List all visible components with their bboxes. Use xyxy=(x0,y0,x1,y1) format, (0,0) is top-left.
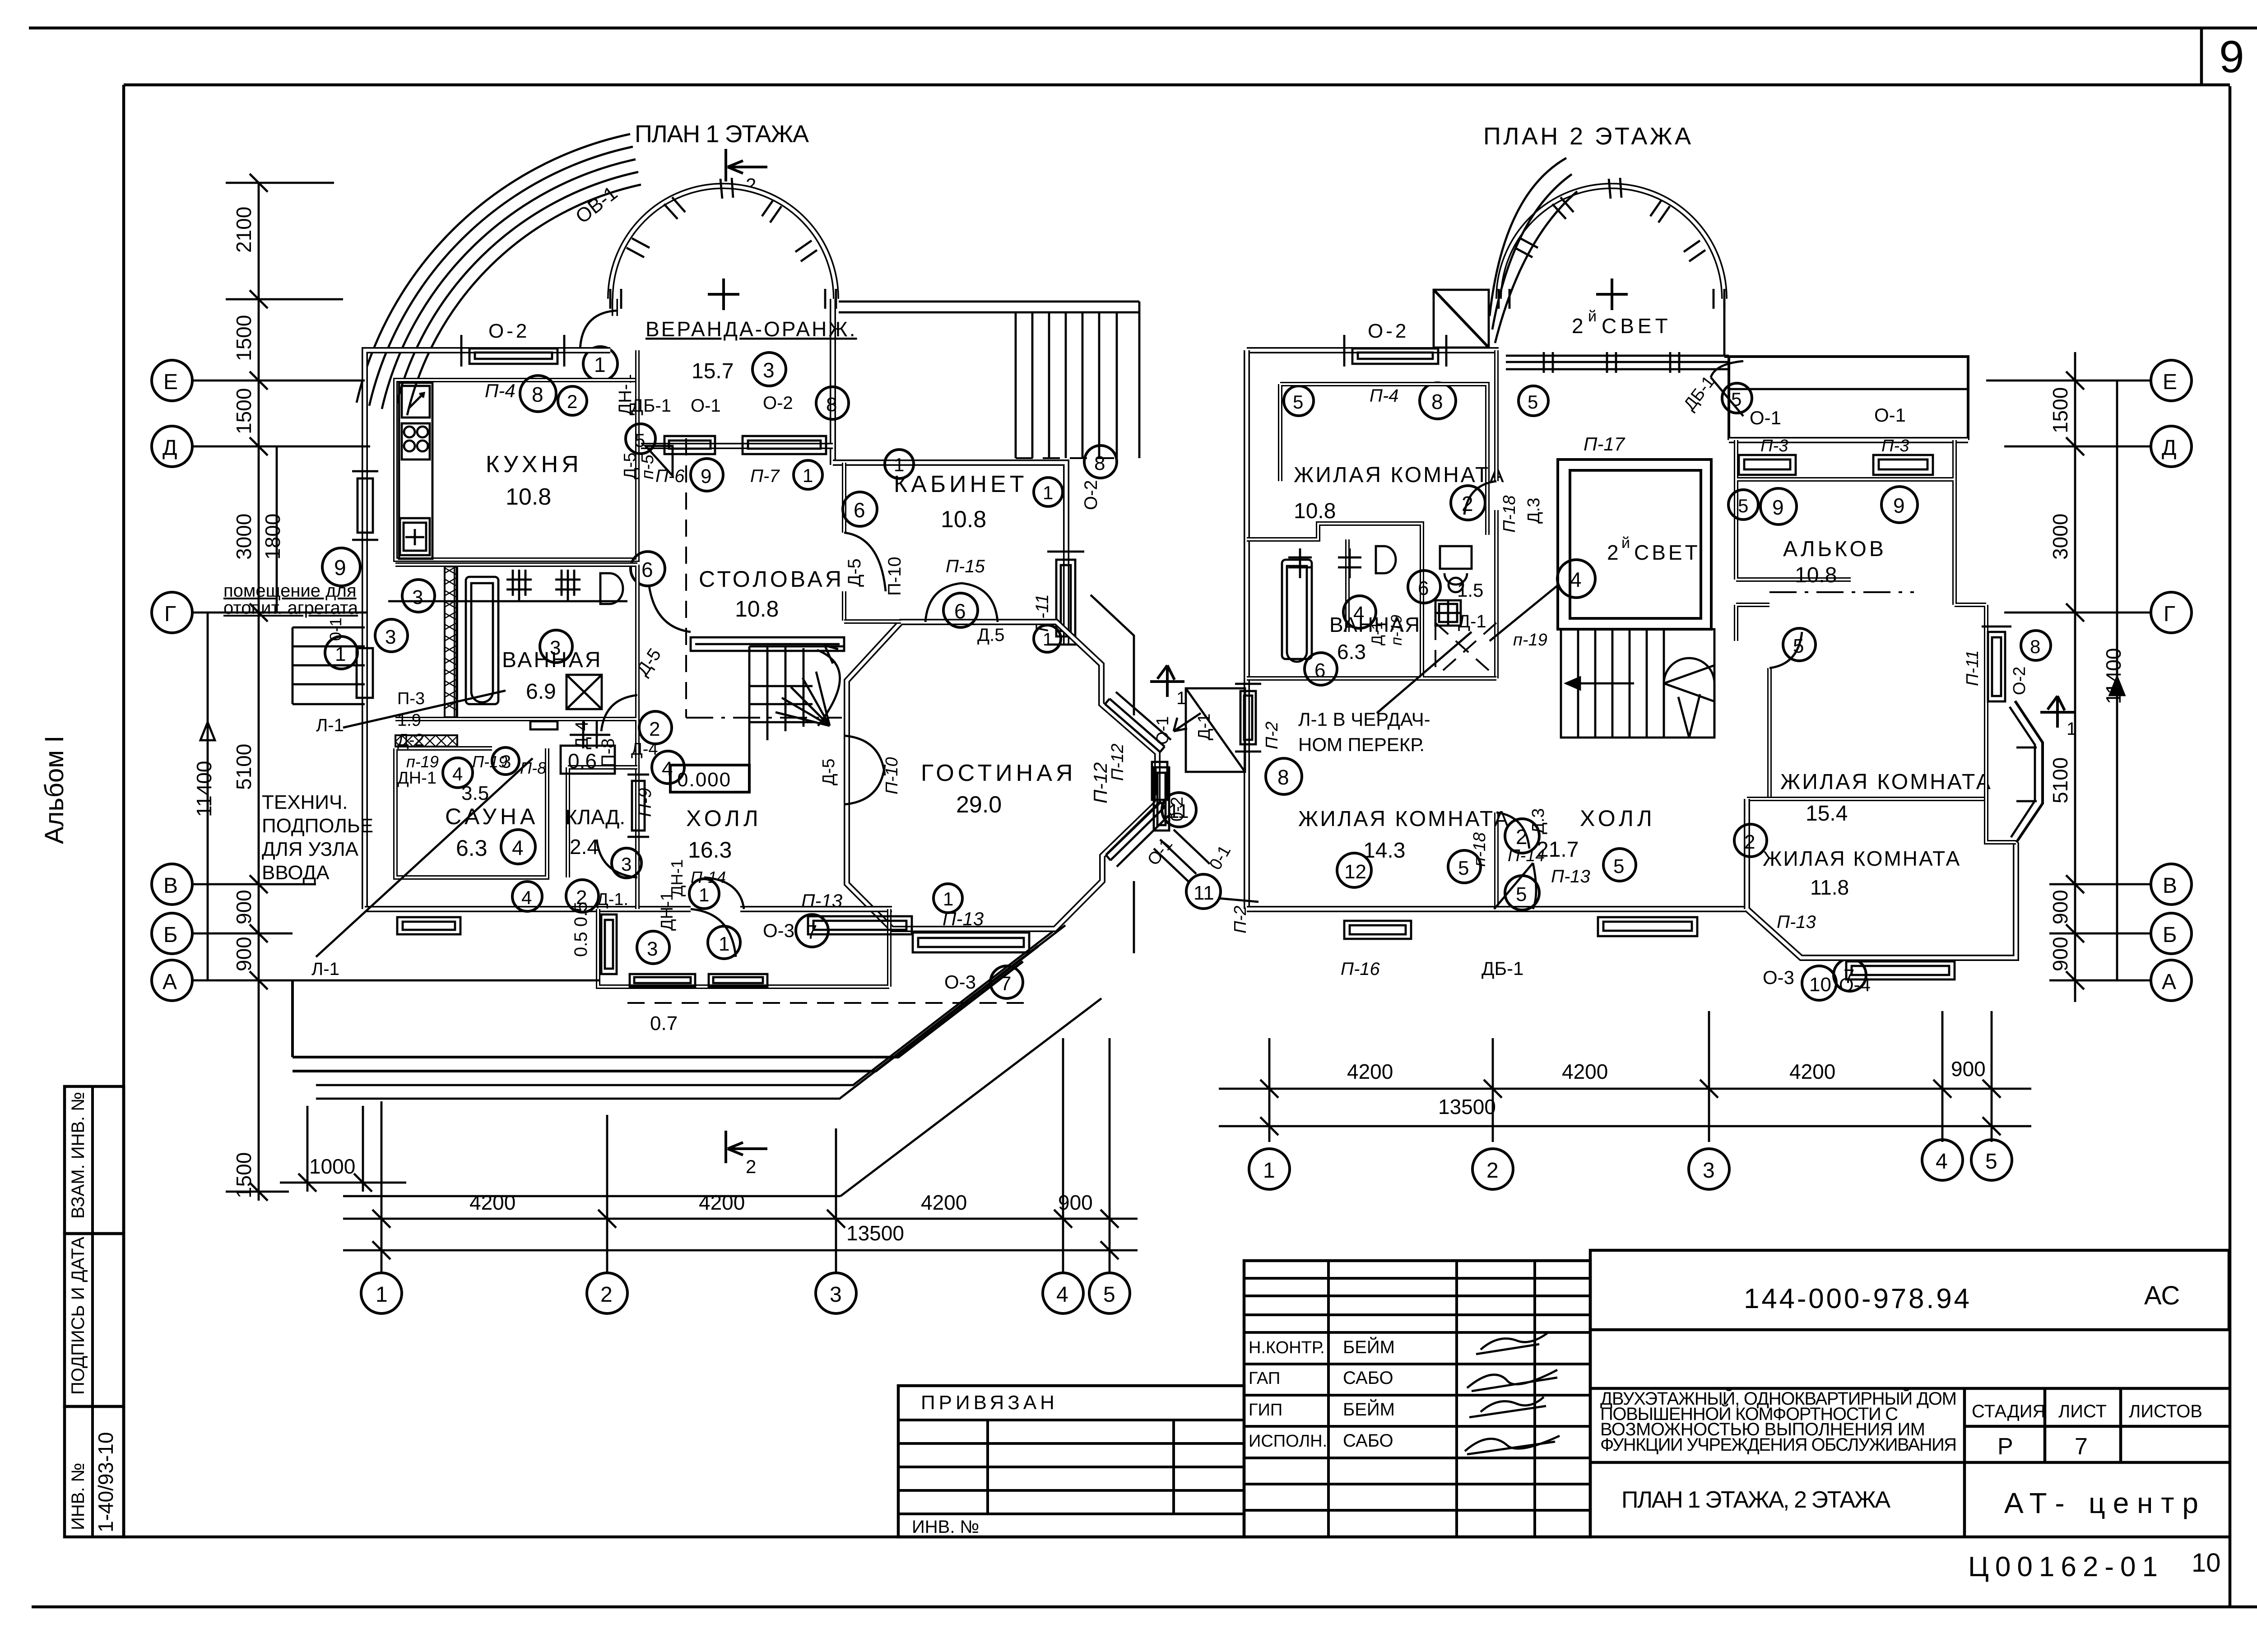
north wall east part (kabinet top) xyxy=(833,463,1066,645)
svg-text:0-2: 0-2 xyxy=(1168,797,1187,821)
svg-text:1: 1 xyxy=(894,454,904,475)
bath fixtures xyxy=(466,570,623,709)
PLAN2 axes and dims xyxy=(1219,352,2192,1189)
svg-text:П-3: П-3 xyxy=(397,689,425,708)
svg-text:4200: 4200 xyxy=(921,1191,967,1214)
svg-text:П-18: П-18 xyxy=(1500,496,1519,533)
svg-text:СТАДИЯ: СТАДИЯ xyxy=(1972,1401,2045,1421)
svg-text:14.3: 14.3 xyxy=(1363,839,1405,863)
svg-text:2: 2 xyxy=(746,1156,756,1177)
svg-text:Ц00162-01: Ц00162-01 xyxy=(1968,1551,2158,1582)
svg-text:11.8: 11.8 xyxy=(1810,876,1849,899)
svg-text:2: 2 xyxy=(1744,831,1755,853)
svg-text:О-4: О-4 xyxy=(1839,974,1871,995)
svg-text:В: В xyxy=(163,874,178,898)
page number 9 box xyxy=(2200,28,2203,86)
svg-text:6.9: 6.9 xyxy=(526,680,556,704)
svg-text:1800: 1800 xyxy=(261,514,284,560)
divider 15.4/11.8 xyxy=(1747,797,1986,801)
svg-text:Б: Б xyxy=(2163,923,2177,947)
south wall plan2 xyxy=(1247,906,1747,912)
door P-15 top of gostinaya xyxy=(925,583,998,622)
door DN-1 to porch xyxy=(691,909,736,957)
svg-text:0.5 0.5: 0.5 0.5 xyxy=(571,902,591,957)
svg-text:НОМ ПЕРЕКР.: НОМ ПЕРЕКР. xyxy=(1298,734,1425,755)
arch xyxy=(1499,186,1724,299)
kitchen counters xyxy=(399,383,432,559)
dashed closet P-19 xyxy=(1435,623,1496,677)
svg-text:900: 900 xyxy=(232,937,255,971)
svg-text:5: 5 xyxy=(1458,857,1469,879)
axis horizontal lines xyxy=(192,381,600,980)
svg-text:1: 1 xyxy=(335,643,346,665)
svg-text:15.4: 15.4 xyxy=(1806,802,1848,826)
svg-text:ЖИЛАЯ КОМНАТА: ЖИЛАЯ КОМНАТА xyxy=(1294,463,1506,487)
svg-text:П-12: П-12 xyxy=(1108,744,1127,781)
svg-text:П-13: П-13 xyxy=(801,890,842,911)
svg-text:ЛИСТОВ: ЛИСТОВ xyxy=(2129,1401,2202,1421)
0.000 level box xyxy=(670,765,749,792)
svg-text:ПЛАН 2 ЭТАЖА: ПЛАН 2 ЭТАЖА xyxy=(1483,123,1691,150)
bathroom block walls xyxy=(395,565,637,909)
svg-text:6: 6 xyxy=(1418,577,1429,599)
svg-text:2.4: 2.4 xyxy=(570,835,599,858)
svg-text:ГИП: ГИП xyxy=(1249,1401,1282,1420)
stair plan2 xyxy=(1561,629,1714,738)
svg-text:900: 900 xyxy=(1058,1191,1093,1214)
klad xyxy=(568,767,637,877)
room zhilaya 10.8 xyxy=(1280,384,1487,535)
svg-text:ВЗАМ. ИНВ. №: ВЗАМ. ИНВ. № xyxy=(68,1092,88,1219)
right big cells xyxy=(1590,1250,2229,1330)
svg-text:Д-2: Д-2 xyxy=(397,731,424,750)
svg-text:П-9: П-9 xyxy=(635,788,655,817)
svg-text:1500: 1500 xyxy=(232,388,255,434)
svg-text:О-2: О-2 xyxy=(488,320,529,342)
south outer wall xyxy=(365,906,892,912)
SE bay room 11.8 xyxy=(1747,799,2016,958)
svg-text:11400: 11400 xyxy=(2102,648,2125,704)
window P-2 left wall xyxy=(1235,684,1261,752)
svg-text:О-2: О-2 xyxy=(2010,667,2029,695)
svg-text:5: 5 xyxy=(1613,855,1624,877)
svg-text:1000: 1000 xyxy=(309,1155,355,1178)
svg-text:1500: 1500 xyxy=(232,1152,255,1198)
svg-text:13500: 13500 xyxy=(1438,1095,1496,1118)
svg-text:8: 8 xyxy=(1431,390,1443,413)
svg-text:Д.5: Д.5 xyxy=(977,625,1004,645)
svg-text:Д-5: Д-5 xyxy=(621,452,640,479)
svg-text:О-1: О-1 xyxy=(1874,404,1906,426)
svg-text:О-3: О-3 xyxy=(763,920,794,941)
svg-text:П-15: П-15 xyxy=(946,557,985,576)
svg-text:29.0: 29.0 xyxy=(956,792,1002,818)
svg-text:4: 4 xyxy=(1936,1150,1948,1174)
svg-text:Д-5: Д-5 xyxy=(845,558,864,587)
porch xyxy=(598,909,889,987)
svg-text:ЖИЛАЯ КОМНАТА: ЖИЛАЯ КОМНАТА xyxy=(1780,770,1992,794)
svg-text:П-4: П-4 xyxy=(485,380,515,401)
svg-text:1: 1 xyxy=(2067,719,2076,739)
svg-text:2: 2 xyxy=(1572,314,1584,338)
svg-text:7: 7 xyxy=(2075,1434,2088,1460)
svg-text:2: 2 xyxy=(567,391,577,412)
window P-16 xyxy=(1344,921,1411,939)
svg-text:5: 5 xyxy=(1985,1150,1997,1174)
door DB-1 south xyxy=(1494,863,1536,909)
svg-text:О-1: О-1 xyxy=(1750,407,1781,428)
svg-text:1.5: 1.5 xyxy=(1457,580,1483,601)
veranda arch xyxy=(610,186,836,299)
door P-8 xyxy=(601,695,637,731)
stolovaya/kabinet divider x=1870 xyxy=(842,463,846,621)
window P-4 in kitchen top wall xyxy=(461,335,564,367)
svg-text:9: 9 xyxy=(1772,496,1784,519)
svg-text:1500: 1500 xyxy=(232,315,255,361)
svg-text:9: 9 xyxy=(701,465,711,487)
svg-text:5: 5 xyxy=(1528,391,1538,413)
svg-text:5: 5 xyxy=(1103,1283,1115,1307)
svg-text:О-1: О-1 xyxy=(691,396,721,416)
terrace steps xyxy=(293,946,1038,1071)
svg-text:2: 2 xyxy=(1486,1159,1499,1183)
svg-text:Альбом I: Альбом I xyxy=(40,736,69,844)
svg-text:ЖИЛАЯ КОМНАТА: ЖИЛАЯ КОМНАТА xyxy=(1298,807,1510,831)
svg-text:ЖИЛАЯ КОМНАТА: ЖИЛАЯ КОМНАТА xyxy=(1763,847,1961,870)
svg-text:й: й xyxy=(1621,534,1630,552)
svg-text:0.6: 0.6 xyxy=(568,749,597,773)
svg-text:П-10: П-10 xyxy=(885,557,905,596)
svg-text:10: 10 xyxy=(1809,974,1831,996)
svg-text:10: 10 xyxy=(2192,1548,2221,1578)
svg-text:П-14: П-14 xyxy=(1508,846,1545,865)
svg-text:5100: 5100 xyxy=(2048,757,2072,803)
svg-text:1: 1 xyxy=(1263,1159,1275,1183)
window P-11 east xyxy=(1982,626,2011,701)
svg-text:й: й xyxy=(1588,308,1597,325)
PLAN2 east rooms xyxy=(1154,299,2051,1000)
svg-text:Е: Е xyxy=(163,370,178,394)
svg-text:6: 6 xyxy=(1314,659,1325,682)
svg-text:П-12: П-12 xyxy=(1090,762,1111,803)
svg-text:13500: 13500 xyxy=(846,1221,904,1245)
veranda east wall xyxy=(830,299,836,465)
svg-text:3: 3 xyxy=(412,586,423,608)
svg-text:900: 900 xyxy=(1951,1057,1986,1081)
svg-text:ХОЛЛ: ХОЛЛ xyxy=(1580,806,1656,831)
section arrow 1 near P-11 xyxy=(2040,696,2075,728)
svg-text:8: 8 xyxy=(2030,636,2040,657)
svg-text:2: 2 xyxy=(649,718,660,740)
kitchen east corridor wall xyxy=(635,350,640,560)
svg-text:Л-1: Л-1 xyxy=(316,715,344,735)
door P-18 top xyxy=(1464,481,1496,515)
svg-text:1: 1 xyxy=(699,884,709,905)
window P-11 on east wall xyxy=(1047,552,1084,645)
veranda west wall xyxy=(612,299,618,316)
svg-text:ИСПОЛН.: ИСПОЛН. xyxy=(1249,1432,1327,1451)
bathroom block xyxy=(1247,524,1496,678)
door DN-1 at kitchen top xyxy=(580,311,618,350)
svg-text:ПОДПИСЬ И ДАТА: ПОДПИСЬ И ДАТА xyxy=(68,1237,88,1395)
dashed partition stolovaya/holl xyxy=(685,438,687,718)
svg-text:6: 6 xyxy=(954,599,966,623)
svg-text:О-1: О-1 xyxy=(1153,716,1172,745)
svg-text:П-14: П-14 xyxy=(691,868,726,886)
svg-text:1: 1 xyxy=(594,353,606,376)
svg-text:В: В xyxy=(2163,874,2177,898)
svg-text:О-2: О-2 xyxy=(1081,480,1101,510)
svg-text:отопит. агрегата: отопит. агрегата xyxy=(223,598,358,618)
svg-text:900: 900 xyxy=(232,890,255,924)
personnel table xyxy=(1244,1261,1590,1537)
window P-13 holl south + labels xyxy=(808,916,912,934)
svg-text:8: 8 xyxy=(1277,766,1289,789)
svg-text:2: 2 xyxy=(1516,825,1528,849)
svg-text:ПОДПОЛЬЕ: ПОДПОЛЬЕ xyxy=(262,815,373,837)
svg-text:О-3: О-3 xyxy=(944,971,976,993)
svg-text:4200: 4200 xyxy=(1347,1060,1393,1083)
svg-text:Д-1: Д-1 xyxy=(1369,622,1386,645)
svg-text:0.000: 0.000 xyxy=(677,769,731,791)
door P-18 bottom xyxy=(1496,812,1529,849)
svg-text:БЕЙМ: БЕЙМ xyxy=(1343,1336,1395,1357)
internal stair plan1 xyxy=(749,645,844,767)
svg-text:5: 5 xyxy=(1793,635,1804,657)
svg-text:О-3: О-3 xyxy=(1763,967,1794,988)
svg-text:4: 4 xyxy=(1353,603,1364,625)
svg-text:4: 4 xyxy=(521,887,532,908)
svg-text:ПЛАН 1 ЭТАЖА: ПЛАН 1 ЭТАЖА xyxy=(635,121,809,148)
svg-text:4200: 4200 xyxy=(1562,1060,1608,1083)
svg-text:4200: 4200 xyxy=(699,1191,745,1214)
svg-text:А: А xyxy=(163,970,177,994)
svg-text:Д: Д xyxy=(163,436,177,460)
svg-text:ПЛАН 1 ЭТАЖА, 2 ЭТАЖА: ПЛАН 1 ЭТАЖА, 2 ЭТАЖА xyxy=(1621,1487,1890,1513)
svg-text:3: 3 xyxy=(830,1283,842,1307)
svg-text:СВЕТ: СВЕТ xyxy=(1634,541,1700,564)
svg-text:900: 900 xyxy=(2048,937,2072,971)
kitchen inner walls xyxy=(395,380,637,560)
east wall and bay xyxy=(1986,701,2016,842)
svg-text:6: 6 xyxy=(854,498,865,522)
svg-text:Д-4: Д-4 xyxy=(572,721,592,749)
boiler room small xyxy=(530,721,610,748)
svg-text:1-40/93-10: 1-40/93-10 xyxy=(94,1432,117,1533)
svg-text:О-2: О-2 xyxy=(763,393,793,413)
svg-text:П-11: П-11 xyxy=(1963,650,1982,686)
svg-text:2: 2 xyxy=(600,1283,613,1307)
svg-text:СТОЛОВАЯ: СТОЛОВАЯ xyxy=(699,566,844,592)
svg-text:П-4: П-4 xyxy=(1370,386,1399,406)
svg-text:БЕЙМ: БЕЙМ xyxy=(1343,1399,1395,1420)
svg-text:ДЛЯ УЗЛА: ДЛЯ УЗЛА xyxy=(262,838,359,860)
window P-13 south xyxy=(1598,917,1697,936)
svg-text:4200: 4200 xyxy=(1789,1060,1835,1083)
svg-text:ВЕРАНДА-ОРАНЖ.: ВЕРАНДА-ОРАНЖ. xyxy=(646,317,857,341)
svg-text:1500: 1500 xyxy=(2048,387,2072,433)
svg-text:9: 9 xyxy=(1893,494,1905,517)
fan arcs west xyxy=(1490,158,1566,316)
svg-text:1: 1 xyxy=(943,888,953,910)
svg-text:П-13: П-13 xyxy=(1551,867,1590,886)
svg-text:8: 8 xyxy=(826,394,837,416)
section mark K2 bottom xyxy=(726,1131,767,1163)
alkov block xyxy=(1736,440,1955,580)
balcony band + outdoor stair top right xyxy=(839,302,1139,458)
svg-text:п-19: п-19 xyxy=(1388,615,1405,645)
veranda south wall with windows P-6 P-7 xyxy=(641,443,833,449)
svg-text:0.7: 0.7 xyxy=(650,1012,678,1035)
vertical dim chain xyxy=(226,174,343,1201)
svg-text:П-6: П-6 xyxy=(655,466,685,486)
svg-text:6.3: 6.3 xyxy=(1337,640,1366,664)
vent shaft box xyxy=(1434,290,1489,348)
svg-text:10.8: 10.8 xyxy=(735,596,779,622)
svg-text:10.8: 10.8 xyxy=(506,484,551,510)
svg-text:П-2: П-2 xyxy=(1231,906,1250,933)
svg-text:2100: 2100 xyxy=(232,207,255,253)
svg-text:п-5: п-5 xyxy=(638,454,657,479)
gostinaya octagon xyxy=(847,622,1157,929)
svg-text:3000: 3000 xyxy=(2048,514,2072,560)
svg-text:ДН-1: ДН-1 xyxy=(668,859,686,896)
svg-text:12: 12 xyxy=(1344,861,1366,883)
svg-text:п-18: п-18 xyxy=(1470,832,1489,867)
svg-text:П-2: П-2 xyxy=(1263,722,1282,749)
svg-text:ТЕХНИЧ.: ТЕХНИЧ. xyxy=(262,791,348,813)
svg-text:5: 5 xyxy=(1738,495,1748,516)
west side steps block xyxy=(293,627,373,704)
privyazan table xyxy=(898,1386,1244,1537)
svg-text:П-3: П-3 xyxy=(1760,436,1788,455)
svg-text:5100: 5100 xyxy=(232,744,255,790)
bay outer line xyxy=(1091,595,1134,953)
glazing band right of arch foot to alkov xyxy=(1506,352,1729,373)
window P-9 in klad/holl wall xyxy=(627,775,649,837)
PLAN1 axes and dimensions xyxy=(152,174,1138,1313)
svg-text:11400: 11400 xyxy=(192,761,216,817)
svg-text:2: 2 xyxy=(1607,541,1619,564)
left axis circles xyxy=(152,360,192,1001)
svg-text:П-10: П-10 xyxy=(882,757,901,794)
signatures squiggles xyxy=(1476,1332,1548,1354)
svg-text:П-8: П-8 xyxy=(598,738,618,767)
svg-text:6.3: 6.3 xyxy=(456,835,488,861)
svg-text:4200: 4200 xyxy=(469,1191,515,1214)
2y svet light well xyxy=(1558,459,1711,629)
svg-text:Б: Б xyxy=(163,923,178,947)
svg-text:6: 6 xyxy=(641,558,653,581)
svg-text:11: 11 xyxy=(1194,882,1214,904)
svg-text:П-7: П-7 xyxy=(750,466,780,486)
svg-text:П-8: П-8 xyxy=(520,759,546,777)
top wall xyxy=(1247,347,1499,353)
TITLE BLOCK xyxy=(898,1250,2229,1582)
svg-text:3: 3 xyxy=(647,938,658,960)
door arcs hall area xyxy=(597,840,637,877)
svg-text:ПРИВЯЗАН: ПРИВЯЗАН xyxy=(921,1392,1058,1414)
kitchen block outer walls xyxy=(365,350,610,909)
svg-text:ХОЛЛ: ХОЛЛ xyxy=(686,806,762,831)
svg-text:5: 5 xyxy=(1516,883,1527,905)
svg-text:3: 3 xyxy=(501,752,511,772)
svg-text:КЛАД.: КЛАД. xyxy=(565,805,625,829)
svg-text:1: 1 xyxy=(719,933,729,955)
svg-text:п-19: п-19 xyxy=(406,752,439,771)
wall x=3315 down xyxy=(1494,350,1499,909)
svg-text:9: 9 xyxy=(2219,32,2244,82)
svg-text:Г: Г xyxy=(2164,602,2175,626)
svg-text:1: 1 xyxy=(1043,630,1053,650)
hatched walls xyxy=(395,566,457,747)
section mark K2 top xyxy=(726,149,767,181)
svg-text:ИНВ. №: ИНВ. № xyxy=(912,1517,979,1537)
LEFT SIDEBAR xyxy=(40,736,124,1537)
stolovaya south window sill xyxy=(691,637,844,651)
svg-text:16.3: 16.3 xyxy=(688,837,732,863)
svg-text:4: 4 xyxy=(1056,1283,1068,1307)
svg-text:8: 8 xyxy=(532,383,543,406)
svg-text:4: 4 xyxy=(1570,568,1582,591)
svg-text:900: 900 xyxy=(2048,890,2072,924)
svg-text:1: 1 xyxy=(1043,482,1053,503)
svg-text:ГОСТИНАЯ: ГОСТИНАЯ xyxy=(921,760,1076,786)
svg-text:Д-1: Д-1 xyxy=(1195,713,1214,740)
svg-text:Д-5: Д-5 xyxy=(819,758,838,785)
svg-text:ФУНКЦИИ УЧРЕЖДЕНИЯ ОБСЛУЖИВАНИ: ФУНКЦИИ УЧРЕЖДЕНИЯ ОБСЛУЖИВАНИЯ xyxy=(1600,1435,1957,1455)
svg-text:Р: Р xyxy=(1997,1434,2013,1460)
svg-text:3: 3 xyxy=(1703,1159,1715,1183)
svg-text:Д-1.: Д-1. xyxy=(597,890,628,909)
svg-text:3: 3 xyxy=(385,626,396,648)
PLAN1 south-west interior xyxy=(223,471,1101,1196)
svg-text:Н.КОНТР.: Н.КОНТР. xyxy=(1249,1338,1325,1357)
svg-text:Г: Г xyxy=(164,602,176,626)
svg-text:2: 2 xyxy=(1462,492,1473,515)
svg-text:7: 7 xyxy=(806,921,817,943)
svg-text:1: 1 xyxy=(376,1283,388,1307)
svg-text:Е: Е xyxy=(2163,370,2177,394)
svg-text:Л-1: Л-1 xyxy=(311,959,339,979)
svg-text:АС: АС xyxy=(2144,1281,2180,1310)
svg-text:СВЕТ: СВЕТ xyxy=(1602,314,1672,338)
svg-text:ИНВ. №: ИНВ. № xyxy=(68,1463,88,1530)
svg-text:10.8: 10.8 xyxy=(1795,563,1837,587)
svg-text:САБО: САБО xyxy=(1343,1368,1393,1388)
svg-text:Л-1 В ЧЕРДАЧ-: Л-1 В ЧЕРДАЧ- xyxy=(1298,709,1430,730)
sauna room xyxy=(395,748,547,877)
gostinaya windows: P-12 NE diagonal xyxy=(1105,692,1171,867)
svg-text:15.7: 15.7 xyxy=(692,359,734,383)
svg-text:АЛЬКОВ: АЛЬКОВ xyxy=(1783,537,1886,561)
room 15.4 xyxy=(1736,580,1986,799)
svg-text:10.8: 10.8 xyxy=(941,506,986,533)
svg-text:9: 9 xyxy=(334,556,346,580)
window P-13 south of gostinaya xyxy=(913,933,1029,952)
svg-text:10.8: 10.8 xyxy=(1294,499,1336,523)
svg-text:ДН-1: ДН-1 xyxy=(658,891,677,931)
svg-text:3: 3 xyxy=(763,358,775,382)
west wall window upper xyxy=(352,471,378,540)
veranda center cross xyxy=(708,278,739,310)
svg-text:ДБ-1: ДБ-1 xyxy=(631,396,671,416)
svg-text:О-2: О-2 xyxy=(1368,320,1409,342)
svg-text:П-16: П-16 xyxy=(1341,959,1380,979)
svg-text:САБО: САБО xyxy=(1343,1431,1393,1451)
svg-text:5: 5 xyxy=(635,430,645,451)
right axis circles xyxy=(2151,360,2192,1001)
